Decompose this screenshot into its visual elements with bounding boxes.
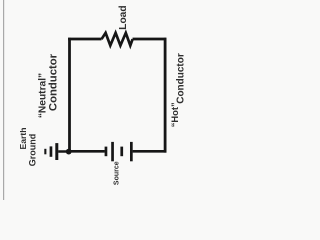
battery V1 (Source) plates [105, 142, 133, 161]
earth ground symbol (pointing left) [44, 143, 58, 160]
svg-text:Conductor: Conductor [176, 53, 187, 104]
wire: top left segment [68, 38, 101, 41]
wire: left vertical conductor [68, 38, 71, 152]
svg-text:Earth: Earth [18, 128, 28, 150]
svg-text:Ground: Ground [28, 134, 38, 167]
left page edge line [3, 0, 4, 200]
resistor R1 (Load) zigzag [102, 33, 133, 46]
wire: ground stub [58, 150, 68, 153]
wire: bottom right segment [133, 150, 167, 153]
svg-text:Conductor: Conductor [47, 53, 59, 111]
wire: bottom left segment [68, 150, 105, 153]
svg-text:Load: Load [118, 5, 129, 29]
page background [0, 0, 200, 200]
svg-text:“Hot”: “Hot” [169, 102, 180, 127]
wire: top right segment [133, 38, 167, 41]
svg-text:Source: Source [113, 161, 120, 185]
wire: right vertical conductor [164, 38, 167, 153]
junction node (ground tap) [66, 149, 72, 155]
